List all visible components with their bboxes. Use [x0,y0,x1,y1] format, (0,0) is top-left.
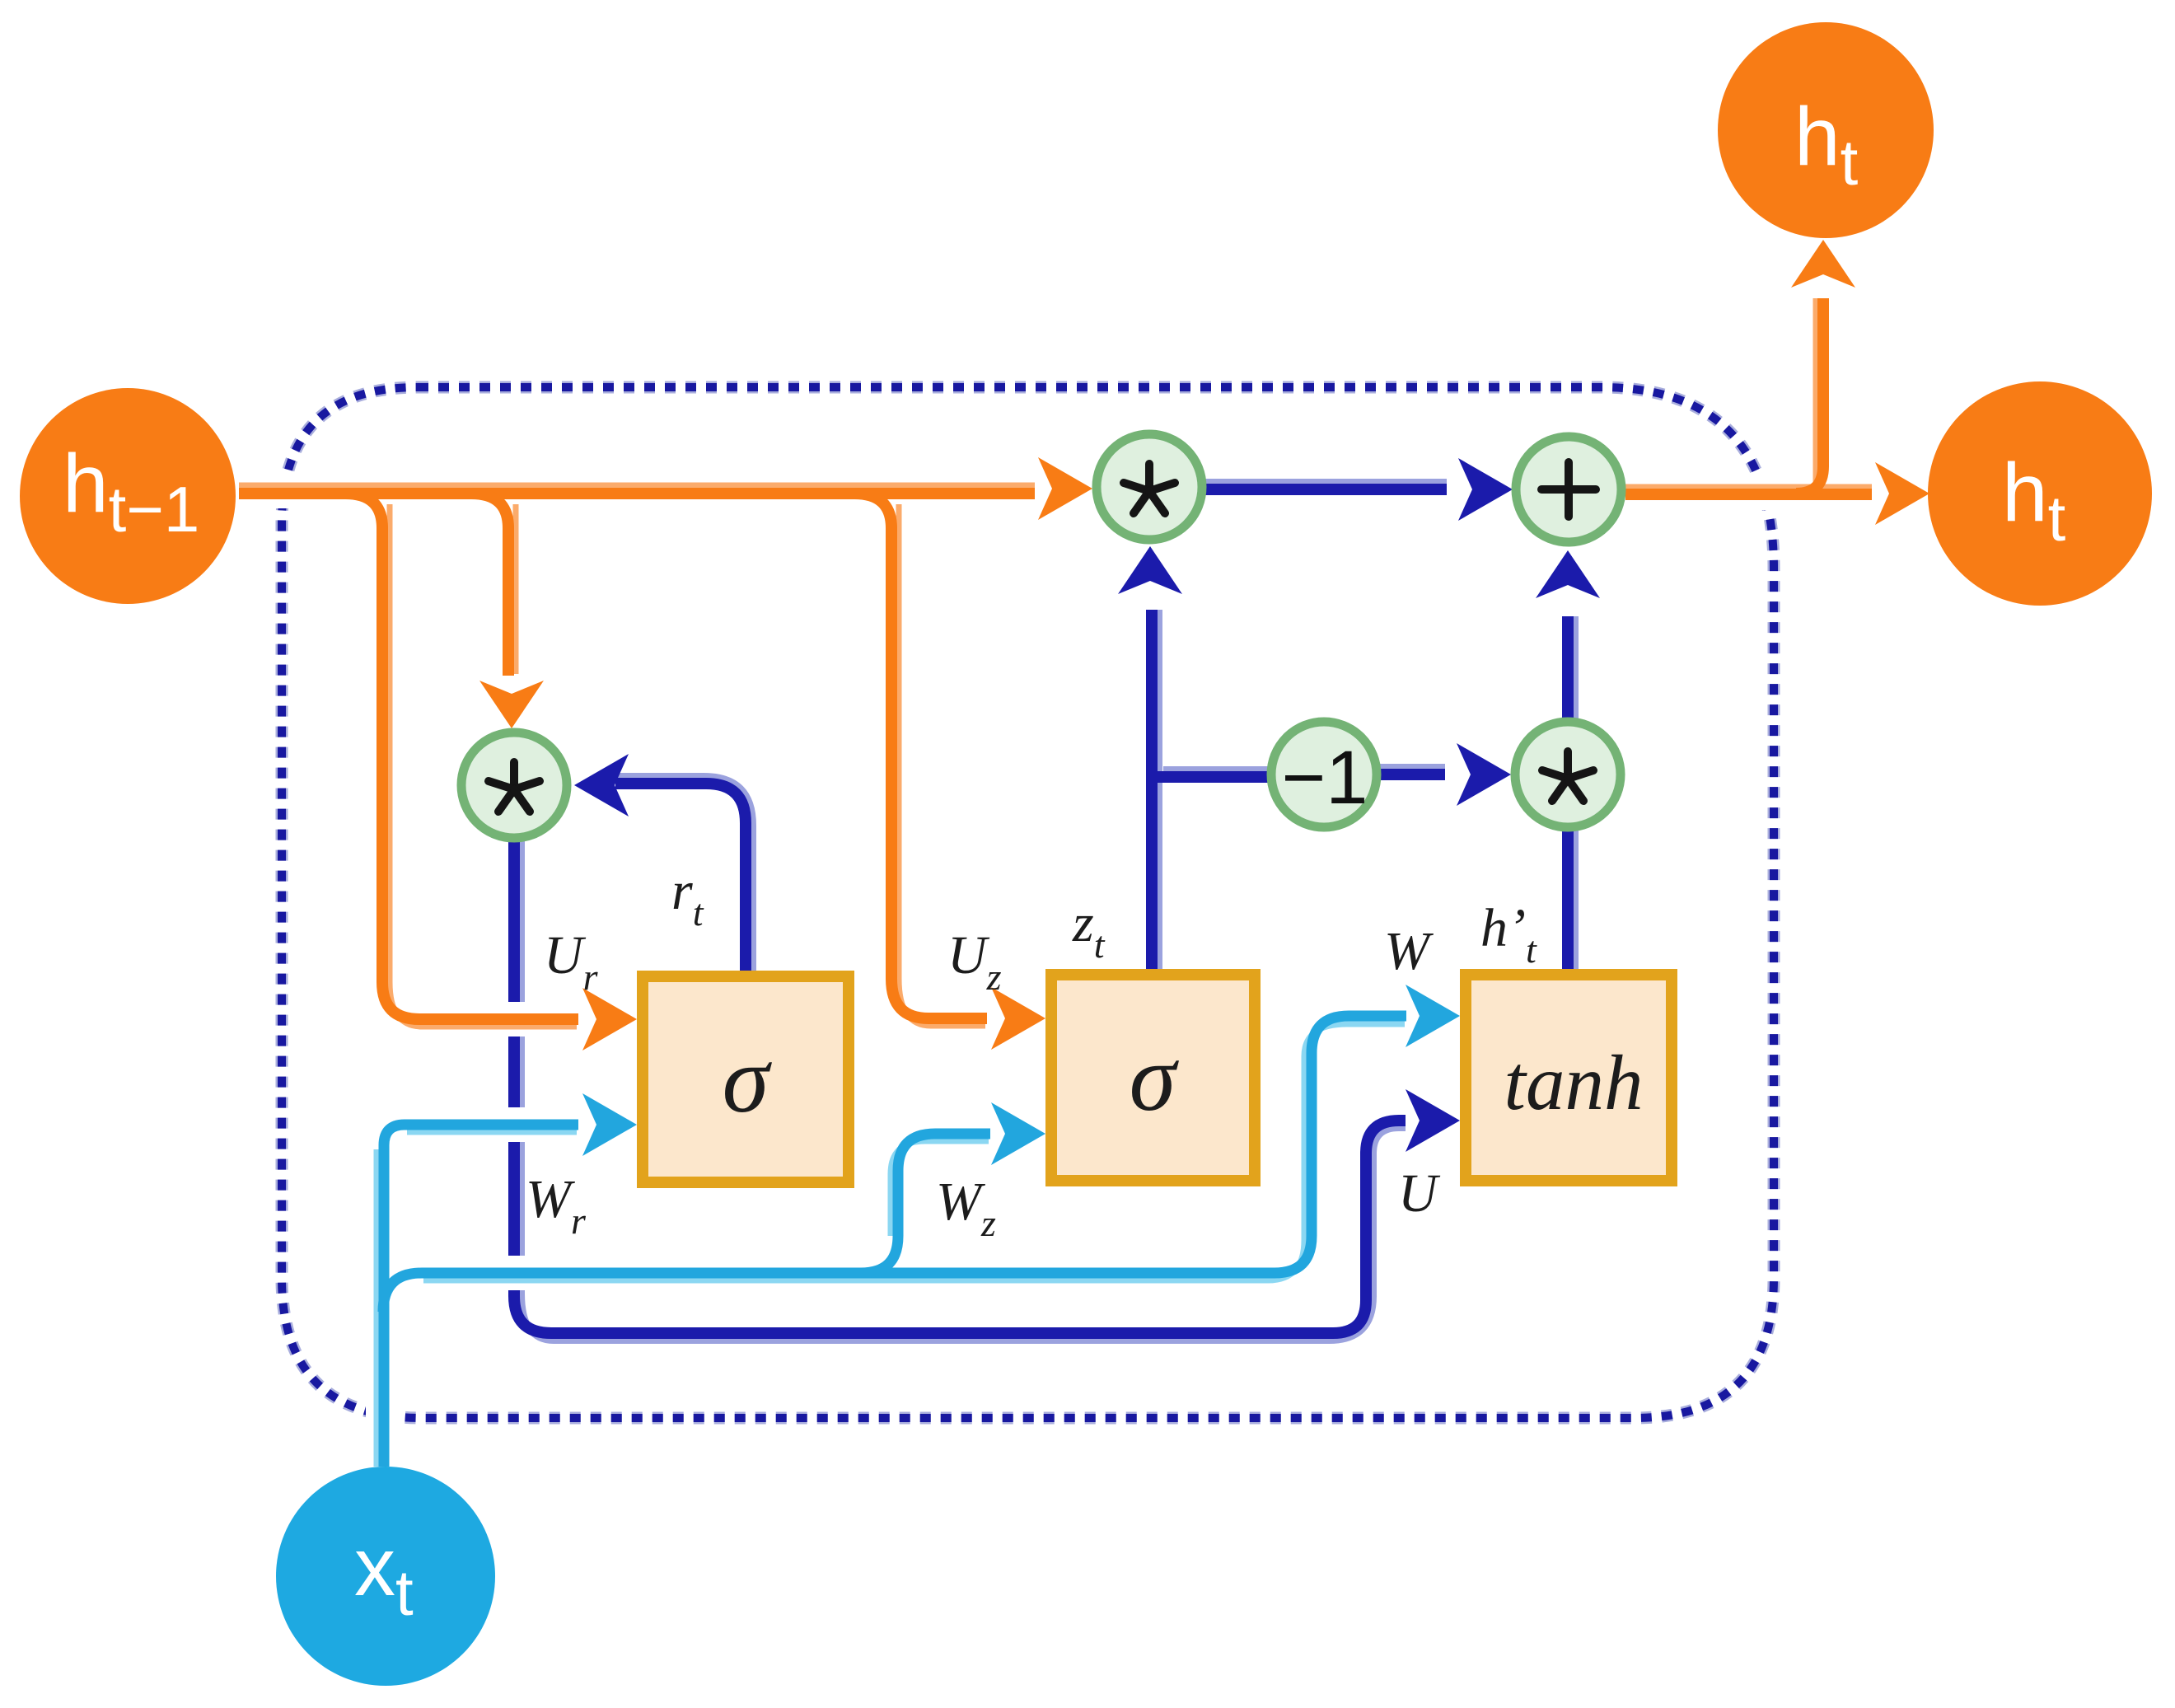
wire branch up into sigma2 (W_z) [861,1134,990,1273]
glyph + (sum) [1541,462,1596,517]
wire main h_t-1 line [239,488,1035,499]
node h_t-1 [20,388,236,604]
branch z_t to -1 [1163,766,1270,773]
wire branch up to h_t top [1813,298,1819,486]
op circle + [1516,437,1621,542]
op circle * (candidate) [1515,722,1621,827]
wire reset output companion [522,840,1406,1341]
wire z_t companion [1156,610,1162,976]
svg-text:U: U [1398,1163,1441,1224]
wire top * to + [1204,479,1447,485]
glyph * (update gate product) [1124,464,1175,513]
white casings [239,297,1872,1019]
op circle * (z_t gate) [1097,434,1202,540]
wire branch 1 into sigma1 (U_r) [390,504,577,1027]
svg-text:W: W [1384,921,1434,981]
box sigma 2 [1051,975,1255,1181]
wire r_t: sigma1 top up, left into reset * [615,784,746,976]
wire x_t riser and W_r into sigma1 [384,1125,578,1467]
wire lower * up to + [1572,616,1579,719]
wire reset output: * down, right, up into tanh U input [514,840,1406,1333]
svg-text:tanh: tanh [1504,1039,1644,1126]
glyph * (candidate product) [1542,751,1593,801]
glyph * (reset product) [489,762,540,812]
wire long W line and into tanh (W) [383,1016,1406,1312]
svg-text:σ: σ [723,1027,773,1132]
box tanh [1466,975,1672,1181]
wire h'_t: tanh top to lower * [1572,831,1579,976]
wire branch up into sigma2 (W_z) companion [891,1141,989,1236]
wire exit from + to h_t right [1625,484,1872,490]
node x_t [276,1467,495,1686]
op circle -1 [1271,722,1377,827]
wire -1 to lower * [1379,764,1445,770]
strokes [239,240,1929,1051]
svg-text:σ: σ [1130,1026,1180,1130]
node h_t top [1718,22,1934,238]
wire main h_t-1 to * companion [239,483,1035,489]
wire branch 2 into reset * [513,504,519,674]
dotted cell border [282,387,1774,1418]
operator glyphs [489,462,1596,812]
svg-text:−1: −1 [1282,736,1368,820]
node h_t right [1928,381,2152,606]
op circle * (reset) [461,732,567,838]
wire x_t riser companion [374,1149,380,1467]
box sigma 1 [643,976,849,1182]
wire r_t companion [615,776,753,976]
wire z_t: sigma2 top up into top * [1146,610,1158,976]
wire long W line companion [423,1024,1405,1280]
wire branch 3 into sigma2 (U_z) [899,504,985,1026]
